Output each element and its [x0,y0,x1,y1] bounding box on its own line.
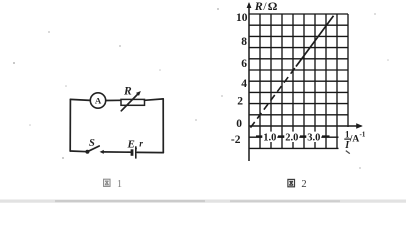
svg-text:2: 2 [301,179,306,190]
svg-text:8: 8 [241,36,247,48]
svg-text:1.0: 1.0 [263,133,276,144]
svg-text:1: 1 [117,179,122,190]
svg-text:2.0: 2.0 [285,133,298,144]
svg-text:0: 0 [236,118,242,130]
svg-text:2: 2 [237,95,243,107]
svg-text:6: 6 [241,58,247,70]
svg-text:10: 10 [236,12,248,24]
svg-text:A: A [95,96,102,106]
svg-text:E: E [127,138,135,150]
svg-text:-1: -1 [360,130,366,138]
svg-text:r: r [139,139,143,149]
svg-text:R: R [123,86,132,98]
svg-text:3.0: 3.0 [307,133,320,144]
svg-text:4: 4 [241,78,247,90]
svg-text:R/Ω: R/Ω [254,0,278,13]
svg-text:S: S [89,138,95,149]
svg-text:-2: -2 [231,134,241,146]
svg-text:,: , [135,141,137,151]
svg-text:/A: /A [349,134,360,144]
